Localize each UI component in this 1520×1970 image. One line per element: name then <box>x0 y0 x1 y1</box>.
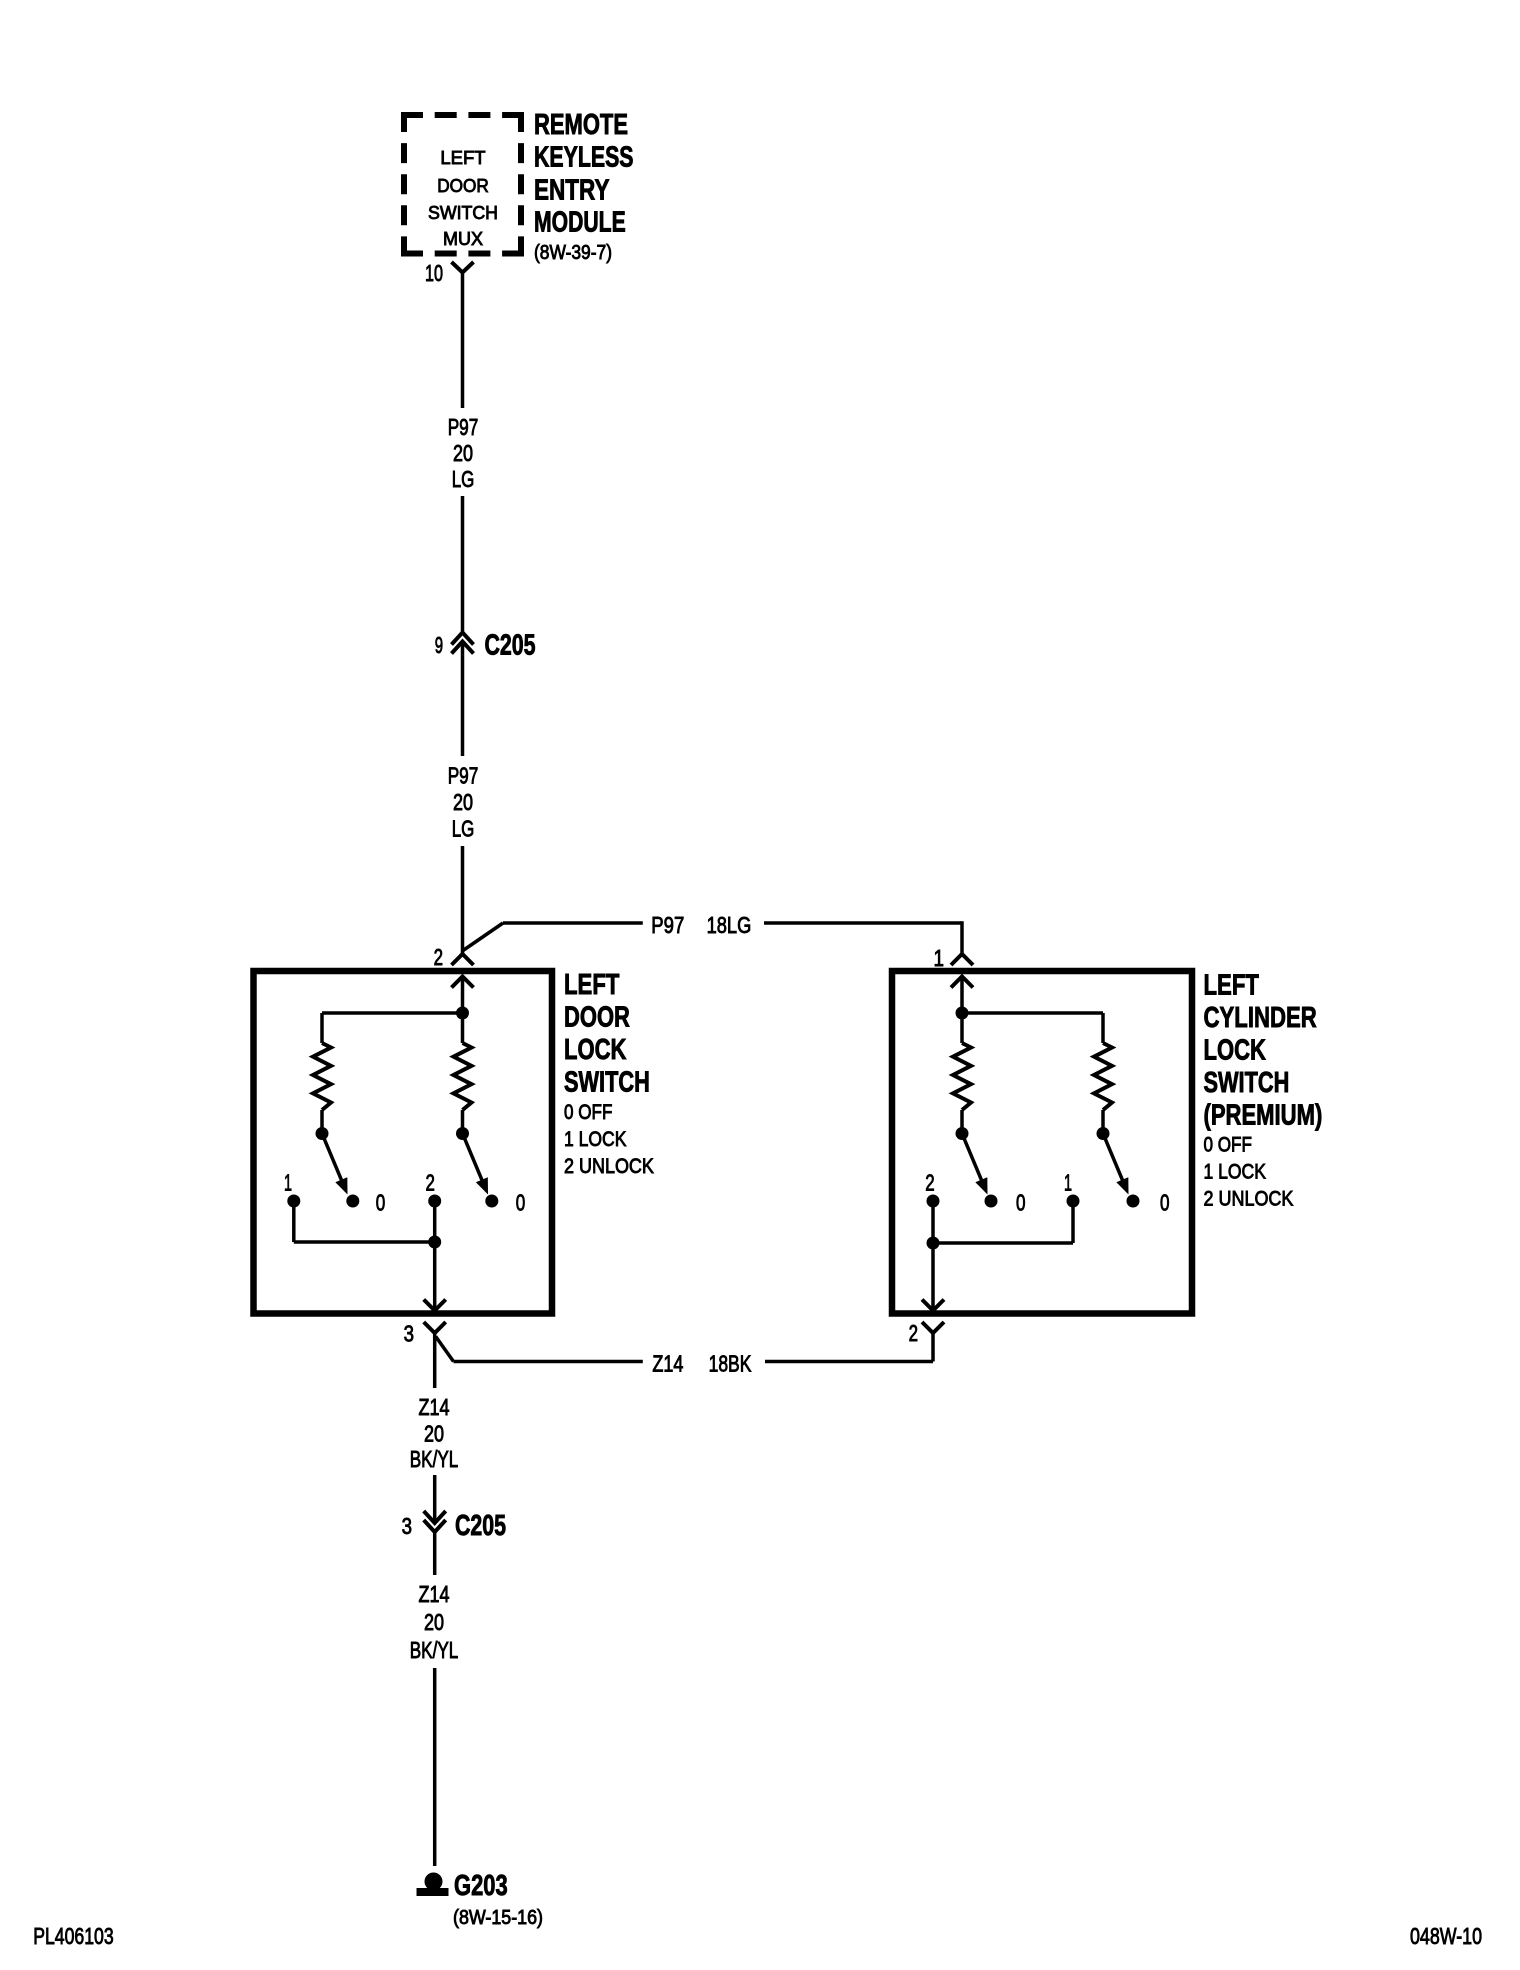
svg-text:KEYLESS: KEYLESS <box>534 142 634 174</box>
svg-text:18BK: 18BK <box>709 1351 752 1377</box>
svg-text:LG: LG <box>452 466 475 492</box>
svg-text:LEFT: LEFT <box>440 147 485 168</box>
svg-text:DOOR: DOOR <box>437 175 489 196</box>
svg-text:18LG: 18LG <box>707 912 752 938</box>
svg-text:P97: P97 <box>651 912 684 938</box>
svg-text:CYLINDER: CYLINDER <box>1204 1002 1317 1034</box>
svg-text:1: 1 <box>934 945 945 971</box>
svg-text:LEFT: LEFT <box>564 969 620 1001</box>
svg-text:20: 20 <box>424 1421 444 1447</box>
svg-text:9: 9 <box>435 632 443 658</box>
svg-text:REMOTE: REMOTE <box>534 109 628 141</box>
svg-text:2 UNLOCK: 2 UNLOCK <box>564 1155 654 1178</box>
svg-text:(PREMIUM): (PREMIUM) <box>1204 1100 1323 1132</box>
svg-text:DOOR: DOOR <box>564 1002 630 1034</box>
svg-text:048W-10: 048W-10 <box>1410 1923 1482 1949</box>
svg-text:1 LOCK: 1 LOCK <box>1204 1161 1266 1184</box>
svg-text:20: 20 <box>424 1609 444 1635</box>
svg-text:20: 20 <box>453 789 473 815</box>
svg-text:2: 2 <box>434 944 443 970</box>
svg-text:Z14: Z14 <box>652 1351 683 1377</box>
svg-text:(8W-15-16): (8W-15-16) <box>453 1907 543 1929</box>
svg-text:2: 2 <box>909 1320 918 1346</box>
svg-text:10: 10 <box>425 260 443 286</box>
svg-text:0 OFF: 0 OFF <box>1204 1134 1252 1157</box>
svg-text:MUX: MUX <box>443 228 483 249</box>
svg-text:P97: P97 <box>448 763 479 789</box>
svg-text:ENTRY: ENTRY <box>534 175 610 207</box>
svg-text:0: 0 <box>516 1190 526 1216</box>
svg-text:PL406103: PL406103 <box>33 1923 114 1949</box>
svg-text:C205: C205 <box>485 630 536 662</box>
svg-text:1: 1 <box>284 1170 292 1196</box>
svg-text:BK/YL: BK/YL <box>410 1446 459 1472</box>
svg-text:1: 1 <box>1064 1170 1072 1196</box>
svg-text:3: 3 <box>404 1321 414 1347</box>
svg-text:C205: C205 <box>455 1510 506 1542</box>
svg-text:2: 2 <box>925 1170 934 1196</box>
svg-text:0 OFF: 0 OFF <box>564 1101 612 1124</box>
svg-text:(8W-39-7): (8W-39-7) <box>534 242 612 264</box>
svg-text:MODULE: MODULE <box>534 207 626 239</box>
svg-text:0: 0 <box>376 1190 386 1216</box>
svg-text:2 UNLOCK: 2 UNLOCK <box>1204 1188 1294 1211</box>
svg-text:Z14: Z14 <box>419 1581 450 1607</box>
svg-text:0: 0 <box>1160 1190 1170 1216</box>
svg-text:3: 3 <box>402 1513 412 1539</box>
svg-text:1 LOCK: 1 LOCK <box>564 1128 626 1151</box>
svg-text:G203: G203 <box>454 1870 508 1902</box>
svg-text:20: 20 <box>453 440 473 466</box>
svg-text:LG: LG <box>452 816 475 842</box>
svg-text:P97: P97 <box>448 414 479 440</box>
svg-text:Z14: Z14 <box>419 1394 450 1420</box>
svg-text:BK/YL: BK/YL <box>410 1637 459 1663</box>
svg-text:SWITCH: SWITCH <box>564 1067 650 1099</box>
svg-text:0: 0 <box>1016 1190 1026 1216</box>
svg-text:SWITCH: SWITCH <box>428 202 498 223</box>
svg-text:LOCK: LOCK <box>564 1034 626 1066</box>
svg-text:2: 2 <box>426 1170 435 1196</box>
svg-text:LOCK: LOCK <box>1204 1035 1266 1067</box>
svg-text:SWITCH: SWITCH <box>1204 1067 1290 1099</box>
svg-text:LEFT: LEFT <box>1204 970 1260 1002</box>
